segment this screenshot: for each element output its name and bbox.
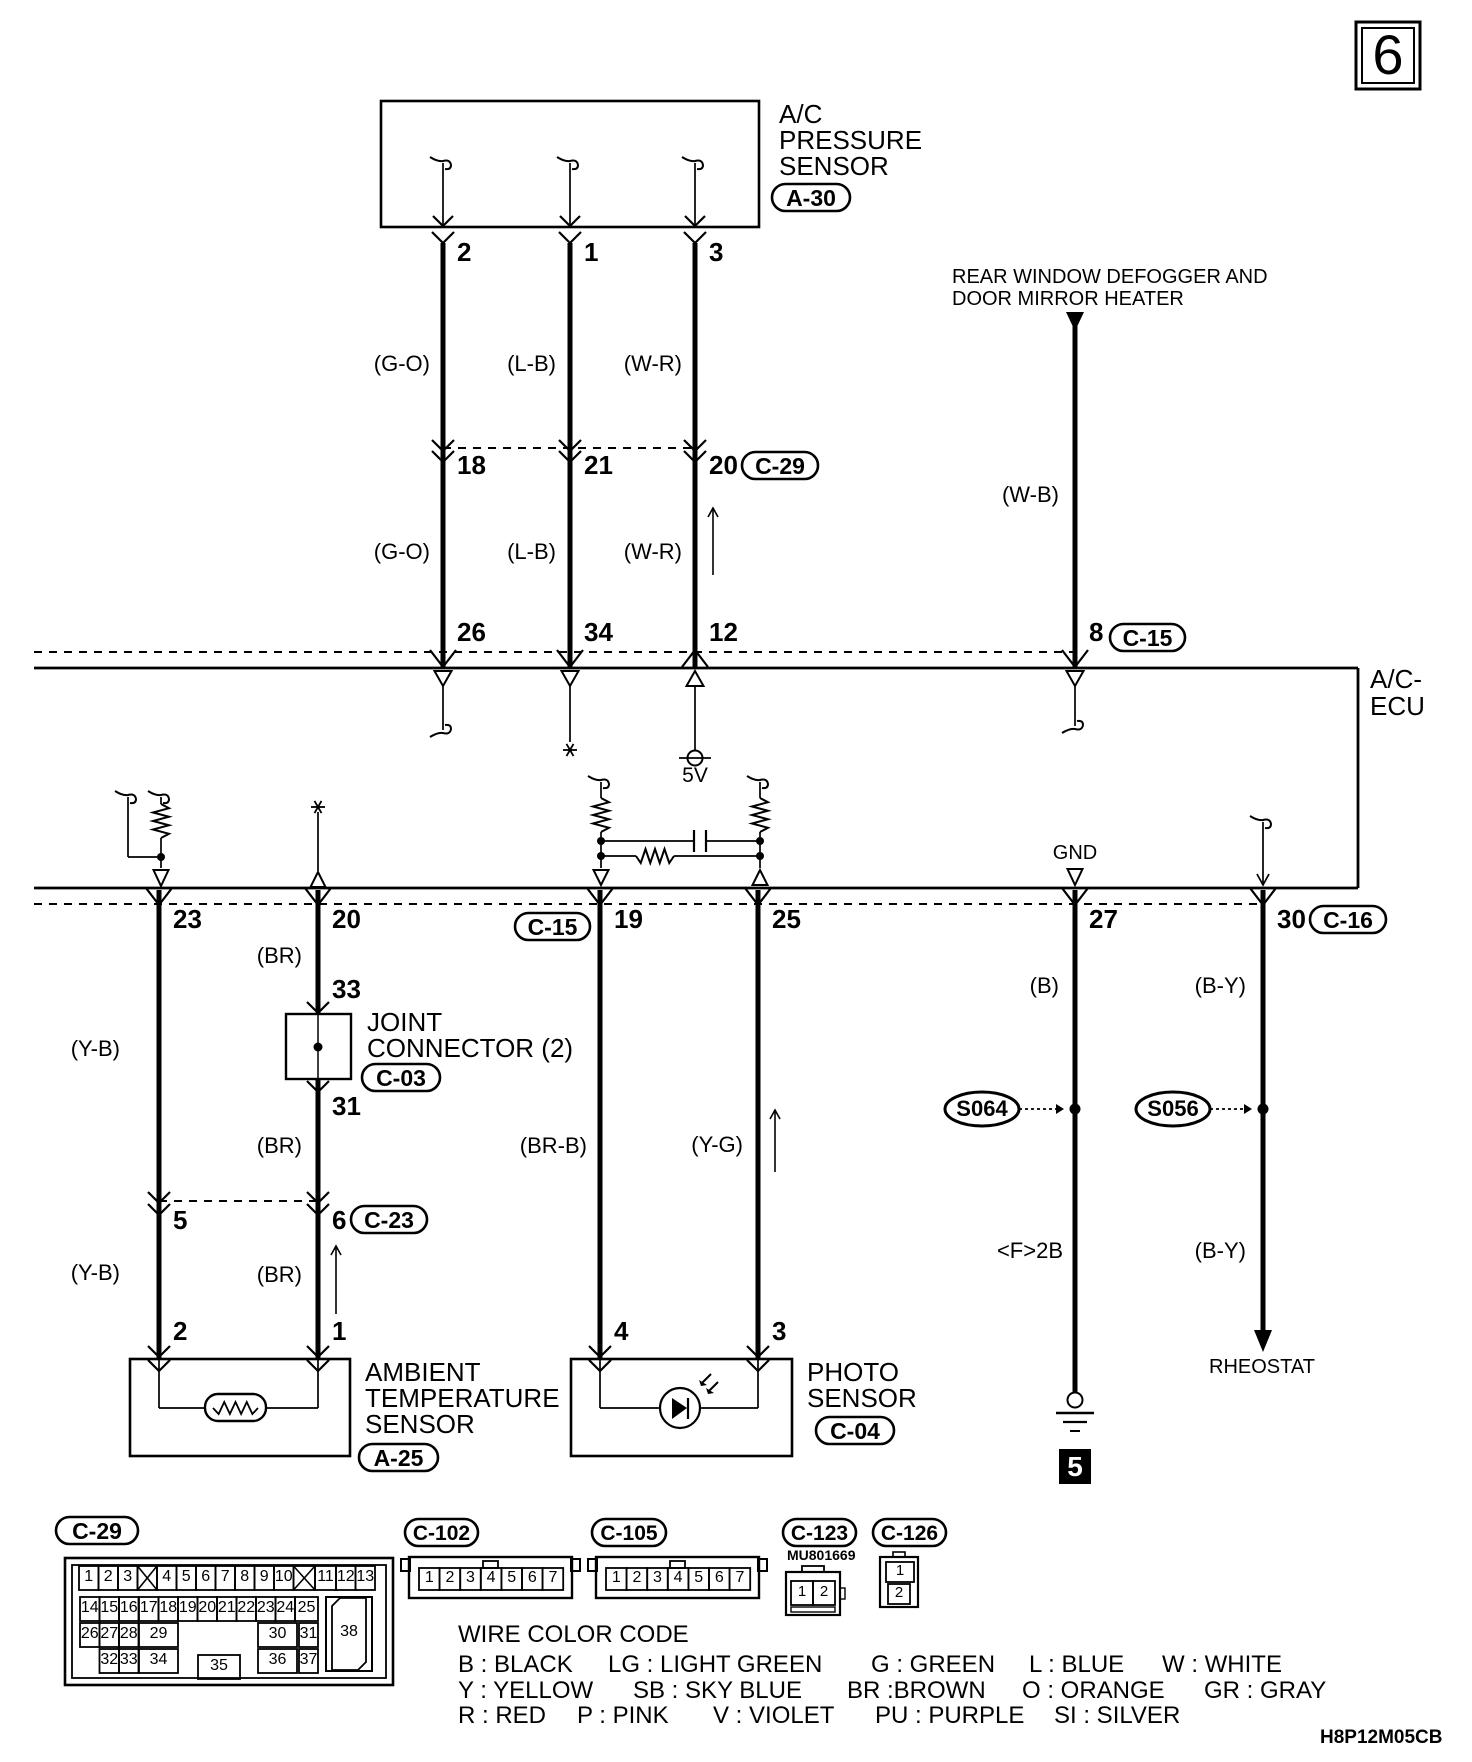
svg-text:7: 7 xyxy=(548,1569,557,1586)
A/C pressure sensor internal wire pin 3 xyxy=(682,157,705,227)
svg-text:12: 12 xyxy=(709,617,738,647)
pin number 27 (ECU bottom) xyxy=(1089,904,1118,934)
pin number 5 (C-23) xyxy=(173,1205,187,1235)
ECU pin30 internal: output xyxy=(1250,816,1271,885)
svg-text:9: 9 xyxy=(260,1568,269,1585)
wire label (W-R) upper xyxy=(624,351,682,376)
connector label C-29 xyxy=(742,452,818,479)
connector chevron pin 27 (ECU bottom) xyxy=(1062,888,1088,905)
label AMBIENT TEMPERATURE SENSOR xyxy=(365,1357,560,1439)
svg-text:(W-R): (W-R) xyxy=(624,539,682,564)
svg-text:(L-B): (L-B) xyxy=(507,539,556,564)
svg-text:A-30: A-30 xyxy=(786,185,836,211)
pin number 1 (sensor) xyxy=(332,1316,346,1346)
ground symbol (body ground 5) xyxy=(1056,1393,1094,1432)
svg-text:2: 2 xyxy=(173,1316,187,1346)
pin number 21 (C-29) xyxy=(584,450,613,480)
ECU pin12 internal: 5V supply xyxy=(679,671,711,787)
connector C-29 dashed line xyxy=(443,447,696,449)
connector label C-16 xyxy=(1310,906,1386,933)
svg-text:14: 14 xyxy=(81,1599,99,1616)
wire label (BR) lower xyxy=(257,1262,302,1287)
svg-text:6: 6 xyxy=(528,1569,537,1586)
sensor connector chevrons pin 4 xyxy=(589,1346,611,1371)
svg-text:(BR): (BR) xyxy=(257,1262,302,1287)
svg-text:DOOR MIRROR HEATER: DOOR MIRROR HEATER xyxy=(952,288,1184,310)
svg-text:2: 2 xyxy=(457,237,471,267)
svg-text:25: 25 xyxy=(772,904,801,934)
sheet number box 6 xyxy=(1356,22,1420,89)
pin number 33 (joint connector top) xyxy=(332,974,361,1004)
svg-text:19: 19 xyxy=(179,1599,197,1616)
wire color code legend xyxy=(458,1621,1326,1729)
wire (BR) ECU pin20 to joint connector xyxy=(316,890,321,1014)
svg-text:PU : PURPLE: PU : PURPLE xyxy=(875,1702,1024,1729)
svg-text:33: 33 xyxy=(120,1651,138,1668)
svg-text:4: 4 xyxy=(674,1569,683,1586)
ECU pin20 internal: terminal xyxy=(311,801,326,887)
svg-text:SENSOR: SENSOR xyxy=(365,1409,475,1439)
svg-text:Y : YELLOW: Y : YELLOW xyxy=(458,1677,594,1704)
connector C-105 face xyxy=(588,1557,767,1598)
svg-text:3: 3 xyxy=(123,1568,132,1585)
wire label (G-O) lower xyxy=(374,539,430,564)
svg-text:O : ORANGE: O : ORANGE xyxy=(1022,1677,1165,1704)
svg-text:4: 4 xyxy=(162,1568,171,1585)
pin number 12 (C-15 top) xyxy=(709,617,738,647)
connector label C-29 (view) xyxy=(56,1517,138,1544)
connector label C-03 xyxy=(362,1064,440,1091)
connector label C-102 xyxy=(405,1519,478,1546)
svg-text:W : WHITE: W : WHITE xyxy=(1162,1651,1282,1678)
svg-text:MU801669: MU801669 xyxy=(787,1547,856,1563)
sensor connector chevrons pin 2 xyxy=(148,1346,170,1371)
svg-text:7: 7 xyxy=(221,1568,230,1585)
svg-text:C-102: C-102 xyxy=(413,1522,470,1545)
svg-text:27: 27 xyxy=(1089,904,1118,934)
connector chevron pin 20 (ECU bottom) xyxy=(305,888,331,905)
wire (BR-B) ECU pin19 to photo sensor pin4 xyxy=(598,890,603,1358)
A/C pressure sensor internal wire pin 1 xyxy=(557,157,580,227)
svg-text:C-23: C-23 xyxy=(364,1207,414,1233)
connector chevron pin 23 (ECU bottom) xyxy=(146,888,172,905)
connector chevron pin 19 (ECU bottom) xyxy=(587,888,613,905)
wire label (B-Y) upper xyxy=(1195,973,1246,998)
A/C-ECU box xyxy=(34,668,1358,888)
wire (W-B) defogger to ECU pin8 xyxy=(1073,326,1078,667)
svg-text:23: 23 xyxy=(257,1599,275,1616)
svg-text:SI : SILVER: SI : SILVER xyxy=(1054,1702,1180,1729)
svg-text:20: 20 xyxy=(332,904,361,934)
svg-text:1: 1 xyxy=(584,237,598,267)
svg-text:(BR): (BR) xyxy=(257,1133,302,1158)
svg-text:(BR): (BR) xyxy=(257,943,302,968)
connector C-102 face xyxy=(401,1557,580,1598)
svg-text:3: 3 xyxy=(709,237,723,267)
ECU internal capacitor between pin19 and pin25 nets xyxy=(601,830,760,852)
svg-text:(Y-B): (Y-B) xyxy=(71,1036,120,1061)
svg-text:6: 6 xyxy=(201,1568,210,1585)
connector C-15/C-16 dashed line (ECU bottom) xyxy=(34,903,1263,905)
joint connector chevron bottom xyxy=(307,1081,329,1092)
svg-text:5: 5 xyxy=(173,1205,187,1235)
svg-text:CONNECTOR (2): CONNECTOR (2) xyxy=(367,1033,573,1063)
wire (B-Y) ECU pin30 to rheostat xyxy=(1261,890,1266,1332)
ECU internal resistor between pin19 and pin25 nets xyxy=(601,849,760,863)
svg-text:BR :BROWN: BR :BROWN xyxy=(847,1677,986,1704)
pin number 8 (C-15 top) xyxy=(1089,617,1103,647)
svg-text:L : BLUE: L : BLUE xyxy=(1029,1651,1124,1678)
svg-text:5V: 5V xyxy=(682,764,708,787)
svg-text:36: 36 xyxy=(269,1651,287,1668)
pin number 25 (ECU bottom) xyxy=(772,904,801,934)
svg-text:2: 2 xyxy=(445,1569,454,1586)
svg-text:25: 25 xyxy=(298,1599,316,1616)
svg-text:26: 26 xyxy=(81,1625,99,1642)
direction arrow on wire W-R xyxy=(708,508,718,575)
svg-text:1: 1 xyxy=(332,1316,346,1346)
connector C-29 chevrons pin 21 xyxy=(559,440,581,462)
wire (W-R) A-30 pin3 to ECU pin12 xyxy=(693,243,698,667)
svg-text:(W-B): (W-B) xyxy=(1002,482,1059,507)
wire label (Y-B) upper xyxy=(71,1036,120,1061)
connector label C-15 (top) xyxy=(1110,624,1185,651)
connector label A-30 xyxy=(772,184,850,211)
pin number 2 (sensor) xyxy=(173,1316,187,1346)
svg-text:B : BLACK: B : BLACK xyxy=(458,1651,573,1678)
connector label C-15 (bottom) xyxy=(515,913,590,940)
svg-text:V : VIOLET: V : VIOLET xyxy=(713,1702,835,1729)
ECU pin26 internal: input terminal xyxy=(430,671,452,737)
svg-text:20: 20 xyxy=(198,1599,216,1616)
pin number 19 (ECU bottom) xyxy=(614,904,643,934)
A/C pressure sensor A-30 box xyxy=(381,101,759,227)
splice junction S056 xyxy=(1258,1104,1269,1115)
connector C-15 chevron pin 26 xyxy=(430,650,456,667)
svg-text:5: 5 xyxy=(1067,1451,1083,1482)
ECU pin27 internal: GND xyxy=(1053,842,1097,885)
connector C-123 face xyxy=(786,1566,845,1615)
svg-text:(L-B): (L-B) xyxy=(507,351,556,376)
svg-text:C-16: C-16 xyxy=(1323,907,1373,933)
svg-text:S064: S064 xyxy=(956,1096,1008,1121)
svg-text:C-03: C-03 xyxy=(376,1065,426,1091)
svg-text:3: 3 xyxy=(653,1569,662,1586)
pin number 30 (ECU bottom) xyxy=(1277,904,1306,934)
svg-text:5: 5 xyxy=(694,1569,703,1586)
splice label S064 xyxy=(945,1092,1064,1126)
sensor connector chevrons pin 1 xyxy=(307,1346,329,1371)
pin number 34 (C-15 top) xyxy=(584,617,613,647)
pin number 2 (A-30) xyxy=(457,237,471,267)
label PHOTO SENSOR xyxy=(807,1357,917,1413)
svg-text:(BR-B): (BR-B) xyxy=(520,1133,587,1158)
connector C-15 chevron pin 34 xyxy=(557,650,583,667)
svg-text:1: 1 xyxy=(612,1569,621,1586)
svg-text:SENSOR: SENSOR xyxy=(779,151,889,181)
connector label C-23 xyxy=(351,1206,427,1233)
connector chevron A-30 pin 3 xyxy=(684,232,706,243)
svg-text:4: 4 xyxy=(614,1316,629,1346)
connector chevron A-30 pin 1 xyxy=(559,232,581,243)
svg-text:23: 23 xyxy=(173,904,202,934)
wire (Y-G) ECU pin25 to photo sensor pin3 xyxy=(756,890,761,1358)
svg-text:6: 6 xyxy=(332,1205,346,1235)
svg-text:13: 13 xyxy=(356,1568,374,1585)
svg-text:21: 21 xyxy=(584,450,613,480)
svg-text:C-04: C-04 xyxy=(830,1418,880,1444)
svg-text:R : RED: R : RED xyxy=(458,1702,546,1729)
pin number 3 (A-30) xyxy=(709,237,723,267)
svg-text:(B-Y): (B-Y) xyxy=(1195,1238,1246,1263)
direction arrow on wire Y-G xyxy=(770,1110,780,1172)
connector label C-105 xyxy=(592,1519,666,1546)
pin number 23 (ECU bottom) xyxy=(173,904,202,934)
svg-text:(G-O): (G-O) xyxy=(374,539,430,564)
svg-text:3: 3 xyxy=(466,1569,475,1586)
svg-text:(G-O): (G-O) xyxy=(374,351,430,376)
svg-text:SB : SKY BLUE: SB : SKY BLUE xyxy=(633,1677,802,1704)
svg-text:1: 1 xyxy=(798,1583,806,1600)
ECU pin19 internal: pull-up resistor xyxy=(588,776,609,885)
svg-text:LG : LIGHT GREEN: LG : LIGHT GREEN xyxy=(608,1651,822,1678)
svg-text:18: 18 xyxy=(159,1599,177,1616)
svg-text:16: 16 xyxy=(120,1599,138,1616)
wire label F-2B xyxy=(997,1238,1063,1263)
connector label C-126 xyxy=(873,1519,946,1546)
svg-text:WIRE COLOR CODE: WIRE COLOR CODE xyxy=(458,1621,689,1648)
svg-text:38: 38 xyxy=(340,1623,358,1640)
A/C pressure sensor internal wire pin 2 xyxy=(430,157,453,227)
svg-text:C-15: C-15 xyxy=(528,914,578,940)
connector label C-04 xyxy=(816,1417,894,1444)
pin number 18 (C-29) xyxy=(457,450,486,480)
svg-text:30: 30 xyxy=(1277,904,1306,934)
label A/C-ECU xyxy=(1370,664,1425,721)
svg-text:28: 28 xyxy=(120,1625,138,1642)
joint connector C-03 box xyxy=(286,1014,351,1079)
svg-text:2: 2 xyxy=(895,1584,903,1601)
svg-text:(Y-G): (Y-G) xyxy=(691,1132,743,1157)
wire label (Y-G) xyxy=(691,1132,743,1157)
photo sensor C-04 box xyxy=(571,1359,792,1456)
svg-text:A-25: A-25 xyxy=(374,1445,424,1471)
splice junction S064 xyxy=(1070,1104,1081,1115)
svg-text:27: 27 xyxy=(100,1625,118,1642)
svg-text:G : GREEN: G : GREEN xyxy=(871,1651,995,1678)
wire label (BR) upper xyxy=(257,943,302,968)
wire label (BR) middle xyxy=(257,1133,302,1158)
svg-text:C-29: C-29 xyxy=(755,453,805,479)
svg-text:H8P12M05CB: H8P12M05CB xyxy=(1320,1727,1443,1748)
wire (G-O) A-30 pin2 to ECU pin26 xyxy=(441,243,446,667)
connector label A-25 xyxy=(359,1444,438,1471)
pin number 20 (C-29) xyxy=(709,450,738,480)
svg-text:34: 34 xyxy=(150,1651,168,1668)
svg-text:A/C-: A/C- xyxy=(1370,664,1422,694)
svg-text:6: 6 xyxy=(715,1569,724,1586)
pin number 1 (A-30) xyxy=(584,237,598,267)
svg-text:<F>2B: <F>2B xyxy=(997,1238,1063,1263)
connector C-23 chevrons pin 5 xyxy=(148,1192,170,1215)
source arrow from defogger circuit xyxy=(1066,312,1084,331)
svg-text:ECU: ECU xyxy=(1370,691,1425,721)
svg-text:8: 8 xyxy=(240,1568,249,1585)
svg-text:5: 5 xyxy=(507,1569,516,1586)
svg-text:20: 20 xyxy=(709,450,738,480)
svg-text:11: 11 xyxy=(317,1568,334,1585)
arrow to rheostat xyxy=(1254,1330,1272,1352)
connector C-23 dashed line xyxy=(159,1200,318,1202)
ECU pin23 internal: pull-up resistor network xyxy=(115,791,169,886)
connector C-29 face xyxy=(65,1558,393,1685)
svg-text:33: 33 xyxy=(332,974,361,1004)
svg-text:22: 22 xyxy=(237,1599,255,1616)
ECU pin8 internal: input terminal xyxy=(1062,671,1084,733)
wire label (W-B) xyxy=(1002,482,1059,507)
drawing number H8P12M05CB xyxy=(1320,1727,1443,1748)
connector C-15 chevron pin 8 xyxy=(1062,650,1088,667)
splice label S056 xyxy=(1136,1092,1252,1126)
connector C-123 part number MU801669 xyxy=(787,1547,856,1563)
svg-text:(Y-B): (Y-B) xyxy=(71,1260,120,1285)
svg-text:C-105: C-105 xyxy=(600,1522,658,1545)
svg-text:1: 1 xyxy=(896,1562,904,1579)
svg-text:6: 6 xyxy=(1372,23,1403,86)
label JOINT CONNECTOR (2) xyxy=(367,1007,573,1063)
wire label (B-Y) lower xyxy=(1195,1238,1246,1263)
svg-text:4: 4 xyxy=(487,1569,496,1586)
wire (L-B) A-30 pin1 to ECU pin34 xyxy=(568,243,573,667)
svg-text:(W-R): (W-R) xyxy=(624,351,682,376)
ECU pin34 internal: input terminal to reference xyxy=(562,671,579,756)
joint connector chevron top xyxy=(307,1002,329,1013)
svg-text:24: 24 xyxy=(276,1599,294,1616)
svg-text:31: 31 xyxy=(332,1091,361,1121)
label REAR WINDOW DEFOGGER AND DOOR MIRROR HEATER xyxy=(952,266,1268,310)
pin number 4 (sensor) xyxy=(614,1316,629,1346)
direction arrow on wire BR xyxy=(331,1246,341,1314)
svg-text:2: 2 xyxy=(820,1583,828,1600)
wire (Y-B) ECU pin23 to ambient sensor pin2 xyxy=(157,890,162,1358)
ECU pin25 internal: pull-up resistor xyxy=(747,776,768,885)
svg-text:SENSOR: SENSOR xyxy=(807,1383,917,1413)
connector C-15 dashed line (ECU top) xyxy=(34,651,1075,653)
label A/C PRESSURE SENSOR xyxy=(779,99,922,181)
svg-text:RHEOSTAT: RHEOSTAT xyxy=(1209,1356,1315,1378)
wire label (G-O) upper xyxy=(374,351,430,376)
svg-text:3: 3 xyxy=(772,1316,786,1346)
ground reference box 5 xyxy=(1059,1449,1091,1484)
svg-text:C-29: C-29 xyxy=(72,1518,122,1544)
svg-text:32: 32 xyxy=(100,1651,118,1668)
ambient temperature sensor A-25 box xyxy=(130,1359,350,1456)
sensor connector chevrons pin 3 xyxy=(747,1346,769,1371)
connector label C-123 xyxy=(783,1519,856,1546)
wire label (L-B) upper xyxy=(507,351,556,376)
svg-text:GND: GND xyxy=(1053,842,1097,864)
svg-text:29: 29 xyxy=(150,1625,168,1642)
connector C-15 chevron pin 12 xyxy=(682,650,708,667)
connector chevron pin 30 (ECU bottom) xyxy=(1250,888,1276,905)
connector C-126 face xyxy=(880,1552,918,1607)
svg-text:(B-Y): (B-Y) xyxy=(1195,973,1246,998)
svg-text:8: 8 xyxy=(1089,617,1103,647)
wire (B) ECU pin27 to ground xyxy=(1073,890,1078,1393)
pin number 6 (C-23) xyxy=(332,1205,346,1235)
wire label (Y-B) lower xyxy=(71,1260,120,1285)
connector chevron pin 25 (ECU bottom) xyxy=(745,888,771,905)
svg-text:12: 12 xyxy=(337,1568,355,1585)
wire label (B) xyxy=(1030,973,1059,998)
svg-text:19: 19 xyxy=(614,904,643,934)
svg-text:P : PINK: P : PINK xyxy=(577,1702,669,1729)
connector C-29 chevrons pin 18 xyxy=(432,440,454,462)
wire label (L-B) lower xyxy=(507,539,556,564)
ambient temperature sensor thermistor xyxy=(159,1359,318,1421)
pin number 31 (joint connector bottom) xyxy=(332,1091,361,1121)
connector C-23 chevrons pin 6 xyxy=(307,1192,329,1215)
svg-text:17: 17 xyxy=(140,1599,158,1616)
photo sensor photodiode xyxy=(600,1359,758,1428)
svg-text:26: 26 xyxy=(457,617,486,647)
svg-text:34: 34 xyxy=(584,617,613,647)
pin number 3 (sensor) xyxy=(772,1316,786,1346)
svg-text:10: 10 xyxy=(275,1568,293,1585)
svg-text:2: 2 xyxy=(104,1568,113,1585)
svg-text:(B): (B) xyxy=(1030,973,1059,998)
pin number 20 (ECU bottom) xyxy=(332,904,361,934)
wire label (BR-B) xyxy=(520,1133,587,1158)
svg-text:C-123: C-123 xyxy=(791,1522,848,1545)
svg-text:37: 37 xyxy=(300,1651,318,1668)
svg-text:21: 21 xyxy=(218,1599,236,1616)
svg-text:S056: S056 xyxy=(1147,1096,1198,1121)
wire (BR) joint connector to ambient sensor pin1 xyxy=(316,1079,321,1358)
connector chevron A-30 pin 2 xyxy=(432,232,454,243)
wire label (W-R) lower xyxy=(624,539,682,564)
connector C-29 chevrons pin 20 xyxy=(684,440,706,462)
svg-text:35: 35 xyxy=(210,1657,228,1674)
svg-text:C-15: C-15 xyxy=(1123,625,1173,651)
svg-text:18: 18 xyxy=(457,450,486,480)
svg-text:31: 31 xyxy=(300,1625,318,1642)
pin number 26 (C-15 top) xyxy=(457,617,486,647)
svg-text:GR : GRAY: GR : GRAY xyxy=(1204,1677,1326,1704)
svg-text:1: 1 xyxy=(425,1569,434,1586)
svg-text:7: 7 xyxy=(735,1569,744,1586)
svg-text:2: 2 xyxy=(632,1569,641,1586)
svg-text:5: 5 xyxy=(182,1568,191,1585)
svg-text:30: 30 xyxy=(269,1625,287,1642)
label RHEOSTAT xyxy=(1209,1356,1315,1378)
svg-text:1: 1 xyxy=(84,1568,93,1585)
svg-text:C-126: C-126 xyxy=(881,1522,938,1545)
svg-text:REAR WINDOW DEFOGGER AND: REAR WINDOW DEFOGGER AND xyxy=(952,266,1268,288)
svg-text:15: 15 xyxy=(100,1599,118,1616)
